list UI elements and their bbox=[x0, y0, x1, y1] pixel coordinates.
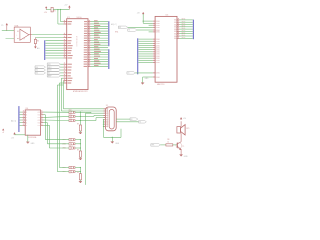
svg-text:+5V: +5V bbox=[137, 13, 141, 15]
svg-text:D12: D12 bbox=[35, 73, 38, 75]
svg-text:AD[0..7]: AD[0..7] bbox=[111, 23, 117, 26]
svg-text:R9: R9 bbox=[77, 124, 79, 126]
svg-text:DIG0: DIG0 bbox=[156, 32, 160, 34]
svg-text:MAX7219: MAX7219 bbox=[157, 83, 164, 86]
svg-text:+5V: +5V bbox=[11, 137, 15, 139]
svg-text:DIG0: DIG0 bbox=[156, 73, 160, 75]
svg-text:1k: 1k bbox=[167, 141, 169, 143]
svg-text:SS: SS bbox=[48, 73, 50, 75]
svg-text:DIG0: DIG0 bbox=[156, 77, 160, 79]
svg-text:TX: TX bbox=[139, 122, 141, 124]
svg-text:J1: J1 bbox=[81, 110, 83, 112]
svg-text:MEGA: MEGA bbox=[77, 16, 83, 19]
svg-text:R1: R1 bbox=[54, 10, 56, 12]
svg-text:SPK: SPK bbox=[151, 145, 154, 147]
svg-text:SP1: SP1 bbox=[186, 128, 189, 130]
svg-text:T1: T1 bbox=[182, 146, 184, 148]
svg-text:CS: CS bbox=[127, 73, 129, 75]
svg-text:AG: AG bbox=[37, 47, 40, 50]
svg-text:GND: GND bbox=[31, 143, 36, 145]
svg-text:R3: R3 bbox=[37, 40, 39, 42]
svg-text:I1: I1 bbox=[26, 125, 27, 127]
svg-text:MOSI: MOSI bbox=[48, 70, 52, 72]
svg-text:GND: GND bbox=[184, 156, 189, 158]
svg-text:ATMEGA168: ATMEGA168 bbox=[75, 36, 78, 46]
svg-text:P5: P5 bbox=[1, 25, 3, 27]
svg-text:GND: GND bbox=[145, 78, 150, 80]
svg-text:SCK: SCK bbox=[48, 64, 51, 66]
svg-text:OP: OP bbox=[23, 38, 26, 40]
svg-text:TX: TX bbox=[128, 30, 130, 32]
svg-text:X1: X1 bbox=[106, 105, 108, 107]
svg-text:+5V: +5V bbox=[44, 12, 48, 14]
svg-text:O1: O1 bbox=[38, 125, 40, 127]
svg-text:GND: GND bbox=[115, 143, 120, 145]
svg-text:IC1: IC1 bbox=[67, 17, 70, 19]
svg-text:RX: RX bbox=[119, 27, 121, 29]
svg-text:IC3: IC3 bbox=[166, 15, 169, 17]
svg-text:R9: R9 bbox=[77, 150, 79, 152]
svg-text:+: + bbox=[16, 34, 17, 36]
svg-text:ATMEGA168-20PU: ATMEGA168-20PU bbox=[73, 90, 88, 93]
svg-text:IC4: IC4 bbox=[26, 108, 29, 110]
svg-text:LED1: LED1 bbox=[68, 118, 72, 120]
svg-text:ULN2003A: ULN2003A bbox=[28, 136, 37, 139]
svg-text:DIG0: DIG0 bbox=[156, 62, 160, 64]
svg-text:A[0..5]: A[0..5] bbox=[11, 120, 16, 123]
svg-text:R9: R9 bbox=[77, 172, 79, 174]
svg-text:D10: D10 bbox=[35, 67, 38, 69]
svg-text:SEG: SEG bbox=[182, 37, 186, 39]
svg-text:D11: D11 bbox=[35, 70, 38, 72]
svg-text:+V: +V bbox=[2, 132, 5, 134]
svg-text:DIG0: DIG0 bbox=[156, 27, 160, 29]
svg-text:+5V: +5V bbox=[183, 118, 187, 120]
svg-text:RX: RX bbox=[130, 119, 132, 121]
svg-text:+5V: +5V bbox=[64, 5, 68, 7]
svg-text:RN1: RN1 bbox=[115, 32, 118, 34]
svg-text:LED1: LED1 bbox=[68, 114, 72, 116]
